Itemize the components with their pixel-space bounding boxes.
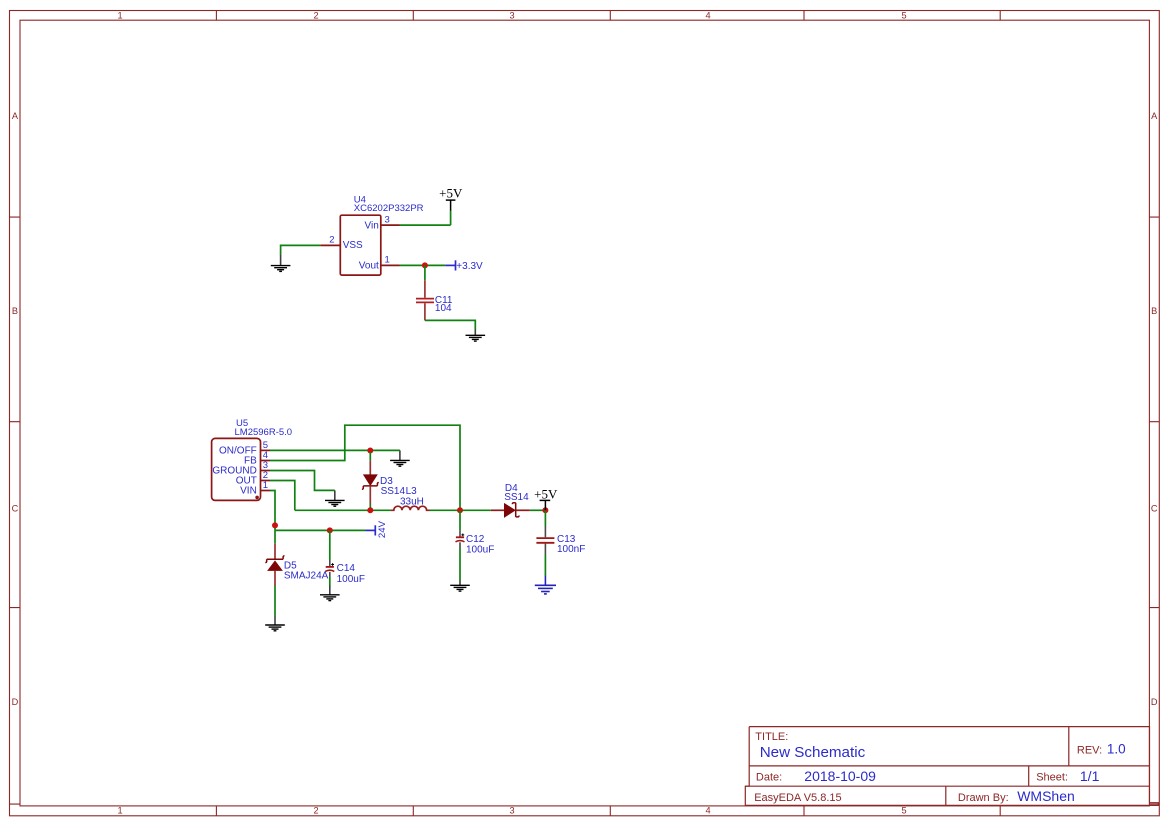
wire U4 Vout to +3.3V [400, 264, 446, 266]
svg-text:100uF: 100uF [337, 574, 365, 585]
ground (C13 blue) [535, 576, 556, 594]
diode D5 SMAJ24A [265, 544, 328, 586]
capacitor C14 100uF [325, 530, 365, 585]
wire VIN to D5 [274, 530, 276, 543]
node ON/OFF junction [367, 448, 373, 454]
U5 pin 3 GROUND [212, 460, 270, 477]
svg-text:EasyEDA V5.8.15: EasyEDA V5.8.15 [754, 792, 841, 804]
ground (VSS) [271, 255, 291, 272]
net label +3.3V [445, 260, 483, 272]
svg-text:3: 3 [509, 11, 514, 21]
node D3 switch junction [367, 507, 373, 513]
diode D3 SS14 [362, 452, 406, 510]
ground (C11) [466, 329, 486, 341]
svg-text:100nF: 100nF [557, 544, 585, 555]
svg-text:C12: C12 [466, 534, 485, 545]
svg-text:1: 1 [385, 255, 390, 266]
wire ON/OFF net [270, 449, 400, 451]
ground (C12) [450, 580, 470, 591]
svg-text:+3.3V: +3.3V [456, 261, 483, 272]
svg-text:2: 2 [313, 806, 318, 816]
svg-text:4: 4 [705, 11, 710, 21]
power flag +5V (U4) [439, 186, 463, 211]
wire C11 to ground [425, 320, 475, 329]
svg-text:1: 1 [117, 806, 122, 816]
ground (D5) [265, 616, 285, 631]
svg-text:3: 3 [385, 214, 390, 225]
capacitor C12 100uF [456, 510, 495, 580]
svg-text:VSS: VSS [343, 240, 363, 251]
svg-text:5: 5 [901, 806, 906, 816]
wire U4 pin3 to +5V [400, 210, 451, 225]
svg-text:1/1: 1/1 [1080, 768, 1100, 784]
svg-text:TITLE:: TITLE: [755, 731, 788, 743]
svg-text:WMShen: WMShen [1017, 788, 1075, 804]
svg-text:LM2596R-5.0: LM2596R-5.0 [235, 427, 293, 438]
diode D4 SS14 [491, 483, 530, 517]
wire U4 VSS to ground [281, 245, 321, 254]
svg-text:2018-10-09: 2018-10-09 [804, 768, 876, 784]
svg-text:24V: 24V [377, 520, 388, 538]
svg-text:C14: C14 [337, 563, 356, 574]
ground (ON/OFF net) [390, 450, 410, 466]
svg-text:104: 104 [435, 303, 452, 314]
svg-text:A: A [12, 111, 19, 121]
svg-text:SS14: SS14 [504, 492, 529, 503]
regulator U4 XC6202P332PR [320, 195, 423, 276]
svg-text:New Schematic: New Schematic [760, 744, 866, 761]
regulator U5 LM2596R-5.0 [212, 418, 292, 500]
svg-text:VIN: VIN [240, 486, 257, 497]
svg-text:Date:: Date: [756, 771, 782, 783]
svg-text:Sheet:: Sheet: [1036, 771, 1068, 783]
wire switch node line [295, 509, 546, 511]
node C14 junction [327, 527, 333, 533]
svg-text:4: 4 [705, 806, 710, 816]
svg-text:XC6202P332PR: XC6202P332PR [354, 203, 424, 214]
node output junction [542, 507, 548, 513]
U5 pin 2 OUT [236, 470, 270, 487]
svg-text:C: C [12, 504, 19, 514]
power flag +5V (output) [534, 487, 558, 511]
svg-text:1: 1 [263, 480, 268, 491]
svg-text:D: D [12, 697, 19, 707]
U4 pin 2 VSS [320, 235, 363, 251]
net label 24V [366, 520, 388, 538]
U5 pin 5 ON/OFF [219, 440, 270, 457]
svg-text:A: A [1151, 111, 1158, 121]
svg-text:33uH: 33uH [400, 496, 424, 507]
svg-text:+5V: +5V [534, 487, 558, 502]
svg-text:2: 2 [313, 11, 318, 21]
U4 pin 3 Vin [365, 214, 400, 231]
svg-text:5: 5 [901, 11, 906, 21]
node Vout junction [422, 262, 428, 268]
svg-text:REV:: REV: [1077, 744, 1102, 756]
svg-text:Vout: Vout [359, 261, 379, 272]
U5 pin 1 VIN [240, 480, 270, 497]
svg-text:1: 1 [117, 11, 122, 21]
capacitor C13 100nF [536, 510, 585, 576]
svg-text:+5V: +5V [439, 186, 463, 201]
svg-text:100uF: 100uF [466, 545, 494, 556]
svg-text:C: C [1151, 504, 1158, 514]
ground (C14) [320, 585, 340, 600]
U5 pin-1 marker dot [255, 496, 259, 500]
inductor L3 33uH [391, 486, 430, 510]
wire junction to C11 [424, 265, 426, 280]
wire VIN net [270, 491, 366, 531]
U5 pin 4 FB [244, 450, 270, 467]
svg-text:B: B [1151, 306, 1157, 316]
svg-text:SMAJ24A: SMAJ24A [284, 570, 329, 581]
svg-text:Vin: Vin [365, 220, 379, 231]
U4 pin 1 Vout [359, 255, 400, 272]
node FB switch junction [457, 507, 463, 513]
svg-text:1.0: 1.0 [1107, 742, 1126, 757]
svg-text:D: D [1151, 697, 1158, 707]
svg-text:Drawn By:: Drawn By: [958, 792, 1009, 804]
ground (GROUND pin) [325, 490, 345, 506]
svg-text:2: 2 [329, 235, 334, 246]
wire GROUND pin net [270, 471, 335, 491]
wire FB net [270, 425, 460, 510]
capacitor C11 104 [416, 280, 453, 320]
wire D5 to ground [274, 586, 276, 617]
svg-text:B: B [12, 306, 18, 316]
node VIN junction [272, 522, 278, 528]
svg-text:3: 3 [509, 806, 514, 816]
wire OUT to switch node [270, 481, 295, 511]
